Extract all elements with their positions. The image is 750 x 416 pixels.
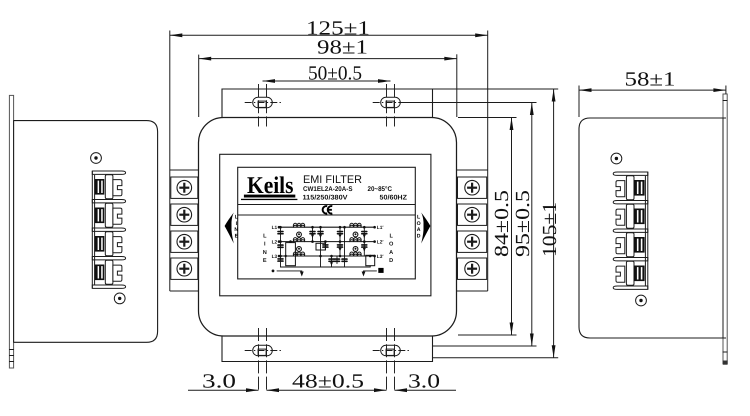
terminal unit 1: fuse-clip block xyxy=(95,179,105,195)
svg-text:L1: L1 xyxy=(272,225,278,231)
right view body outline xyxy=(579,118,726,338)
right terminal rail bar 3 xyxy=(613,229,648,232)
right view screw boss top xyxy=(611,153,622,164)
svg-text:O: O xyxy=(389,242,394,248)
right block screw cell 4 xyxy=(458,258,487,279)
svg-text:L2′: L2′ xyxy=(377,239,385,245)
svg-text:O: O xyxy=(417,221,421,227)
svg-text:L: L xyxy=(263,234,267,240)
mounting slot at (390.5,102.5) xyxy=(381,97,401,107)
capacitor C6 lower xyxy=(331,256,333,267)
svg-text:50±0.5: 50±0.5 xyxy=(308,63,362,85)
Keils logo underline thick xyxy=(244,195,295,198)
capacitor C10 lower mid xyxy=(336,256,338,264)
chassis lead left xyxy=(272,270,275,273)
svg-text:D: D xyxy=(417,234,421,240)
svg-text:E: E xyxy=(263,258,267,264)
right terminal unit 3: faston tab xyxy=(616,238,625,254)
left side view xyxy=(9,95,158,368)
label recess rectangle xyxy=(220,154,431,295)
terminal rail bar 4 xyxy=(92,257,125,260)
inductor stage 2 on L2 xyxy=(350,240,361,242)
wire L1 xyxy=(279,226,375,228)
resistor R1 bleeder box xyxy=(286,243,296,266)
svg-text:CW1EL2A-20A-S: CW1EL2A-20A-S xyxy=(303,186,353,193)
right terminal unit 1: fuse-clip block xyxy=(634,180,645,196)
right view terminal strip plate xyxy=(647,172,649,290)
dimension 50&#177;0.5 xyxy=(263,63,391,85)
right block screw cell 3 xyxy=(458,231,487,252)
resistor R3 box xyxy=(366,255,375,265)
svg-text:N: N xyxy=(234,227,238,233)
Y-capacitor column at output xyxy=(363,227,365,255)
right side view xyxy=(579,94,728,365)
right terminal unit 4: faston tab xyxy=(616,266,625,282)
mounting slot at (390.5,350.5) xyxy=(381,345,401,355)
inductor stage 2 on L3 xyxy=(350,254,361,256)
choke core mark stage 1 lower xyxy=(297,247,302,252)
svg-text:N: N xyxy=(263,250,267,256)
capacitor CY1 xyxy=(362,231,367,233)
dimension 105&#177;1 xyxy=(433,89,561,358)
flange foot xyxy=(723,361,728,365)
slot centerlines xyxy=(386,84,388,127)
right terminal rail bar 4 xyxy=(613,258,648,261)
svg-text:L2: L2 xyxy=(272,239,278,245)
terminal unit 4: fuse-clip block xyxy=(95,265,105,281)
inductor stage 1 on L2 xyxy=(293,240,304,242)
left block screw cell 3 xyxy=(171,231,198,252)
terminal rail bar 2 xyxy=(92,200,125,203)
terminal unit 4: faston tab xyxy=(113,265,122,281)
wire L3 xyxy=(279,255,375,257)
dimension 48&#177;0.5 xyxy=(267,371,387,393)
main body rounded square xyxy=(199,118,457,337)
svg-text:58±1: 58±1 xyxy=(625,68,676,90)
right terminal unit 2: fuse-clip block xyxy=(634,209,645,225)
chassis lead right xyxy=(364,271,377,273)
label plate xyxy=(238,167,416,279)
terminal unit 2: lug bar xyxy=(105,203,113,227)
svg-text:95±0.5: 95±0.5 xyxy=(512,190,534,257)
left view screw boss top xyxy=(91,153,102,164)
right view screw boss bottom xyxy=(636,295,647,306)
svg-text:84±0.5: 84±0.5 xyxy=(491,190,513,257)
dimension 84&#177;0.5 xyxy=(458,118,517,336)
resistor R2 box xyxy=(316,243,325,250)
capacitor CY2 xyxy=(362,244,367,246)
capacitor C8 column mid xyxy=(344,227,346,267)
slot centerlines xyxy=(258,328,260,393)
label divider line upper xyxy=(238,204,416,206)
flange hatch ticks xyxy=(9,349,14,351)
capacitor C4 between L1-L2 xyxy=(312,227,314,241)
right terminal block outer xyxy=(487,31,489,292)
dimension 95&#177;0.5 xyxy=(401,103,537,347)
left block screw cell 1 xyxy=(171,177,198,198)
ground terminal square xyxy=(378,268,383,273)
left view body outline xyxy=(13,121,157,343)
Keils logo underline thin xyxy=(241,199,297,200)
top mounting bracket xyxy=(222,89,433,118)
X-capacitor column at input xyxy=(280,227,282,267)
svg-text:L: L xyxy=(389,234,393,240)
mounting slot at (262.5,350.5) xyxy=(253,345,273,355)
slot centerlines xyxy=(386,328,388,393)
right terminal rail bar 1 xyxy=(613,172,648,175)
svg-text:98±1: 98±1 xyxy=(317,37,368,59)
inductor stage 1 on L3 xyxy=(293,254,304,256)
left view screw boss bottom xyxy=(114,293,125,304)
choke core mark stage 2 upper xyxy=(353,232,358,237)
terminal unit 1: faston tab xyxy=(113,180,122,196)
capacitor CX3 xyxy=(278,258,283,260)
right terminal unit 1: lug bar xyxy=(626,176,634,200)
bottom mounting bracket xyxy=(222,336,433,362)
right terminal unit 4: lug bar xyxy=(626,261,634,285)
terminal unit 1: lug bar xyxy=(105,175,113,199)
wire L2 xyxy=(279,241,375,243)
svg-text:L3: L3 xyxy=(272,254,278,260)
capacitor C9 mid low xyxy=(324,242,326,250)
right block screw cell 1 xyxy=(458,177,487,198)
front view xyxy=(170,31,488,393)
dimension 125&#177;1 xyxy=(170,17,488,39)
terminal rail bar 5 xyxy=(92,285,125,288)
svg-text:D: D xyxy=(389,258,393,264)
left block screw cell 4 xyxy=(171,258,198,279)
left block screw cell 2 xyxy=(171,204,198,225)
right terminal unit 1: faston tab xyxy=(616,181,625,197)
terminal rail bar 3 xyxy=(92,228,125,231)
LOAD direction arrow xyxy=(421,213,430,244)
inductor stage 2 on L1 xyxy=(350,225,361,227)
dimension 3.0 left xyxy=(188,371,259,393)
svg-text:115/250/380V: 115/250/380V xyxy=(303,195,348,202)
right terminal unit 2: lug bar xyxy=(626,204,634,228)
right terminal rail bar 2 xyxy=(613,201,648,204)
right block screw cell 2 xyxy=(458,204,487,225)
terminal unit 4: lug bar xyxy=(105,260,113,284)
right terminal unit 2: faston tab xyxy=(616,209,625,225)
dimension 98&#177;1 xyxy=(199,37,457,117)
svg-text:105±1: 105±1 xyxy=(539,202,561,257)
right terminal unit 3: fuse-clip block xyxy=(634,237,645,253)
terminal rail bar 1 xyxy=(92,171,125,174)
mounting slot at (262.5,102.5) xyxy=(253,97,273,107)
CE mark xyxy=(323,206,328,213)
label divider line lower xyxy=(238,214,416,216)
svg-text:L1′: L1′ xyxy=(377,225,385,231)
LINE direction arrow xyxy=(225,213,234,244)
terminal unit 3: lug bar xyxy=(105,232,113,256)
flange hatch tick xyxy=(723,100,728,102)
svg-text:L: L xyxy=(417,215,421,221)
capacitor CX1 xyxy=(278,231,283,233)
dimension 58&#177;1 xyxy=(579,68,726,117)
capacitor C7 column mid xyxy=(339,227,341,256)
svg-text:48±0.5: 48±0.5 xyxy=(292,371,364,393)
svg-text:A: A xyxy=(417,227,421,233)
right terminal rail bar 5 xyxy=(613,286,648,289)
capacitor CX2 xyxy=(278,244,283,246)
svg-text:50/60HZ: 50/60HZ xyxy=(380,194,408,201)
svg-text:L3′: L3′ xyxy=(377,254,385,260)
svg-text:E: E xyxy=(235,234,239,240)
svg-text:I: I xyxy=(264,242,266,248)
choke core mark stage 1 upper xyxy=(297,232,302,237)
dimension 3.0 right xyxy=(395,371,457,393)
choke core mark stage 2 lower xyxy=(353,247,358,252)
svg-text:EMI FILTER: EMI FILTER xyxy=(303,174,362,186)
terminal unit 2: faston tab xyxy=(113,208,122,224)
ground rail xyxy=(281,266,371,268)
right terminal unit 4: fuse-clip block xyxy=(634,266,645,282)
inductor stage 1 on L1 xyxy=(293,225,304,227)
left view flange (edge-on) xyxy=(9,95,13,368)
svg-text:20~85°C: 20~85°C xyxy=(368,186,393,193)
left terminal block outer xyxy=(169,31,171,292)
svg-text:A: A xyxy=(389,250,393,256)
capacitor C5 column xyxy=(320,227,322,267)
slot centerlines xyxy=(258,84,260,127)
terminal unit 3: faston tab xyxy=(113,237,122,253)
left view terminal strip plate xyxy=(91,171,93,289)
circuit schematic xyxy=(263,223,394,276)
svg-text:3.0: 3.0 xyxy=(202,371,236,393)
svg-text:3.0: 3.0 xyxy=(408,371,440,393)
terminal unit 3: fuse-clip block xyxy=(95,236,105,252)
terminal unit 2: fuse-clip block xyxy=(95,208,105,224)
right view flange (edge-on) xyxy=(723,94,727,364)
right terminal unit 3: lug bar xyxy=(626,233,634,257)
